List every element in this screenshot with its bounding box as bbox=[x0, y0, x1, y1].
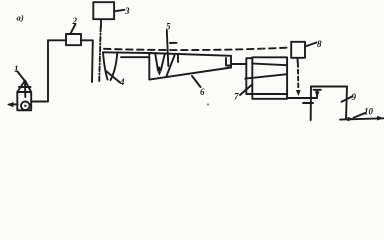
pointer to 3 bbox=[114, 10, 124, 12]
pointer to 4 bbox=[106, 71, 120, 83]
inlet arrow of 5 bbox=[158, 68, 160, 73]
wire rail left of box 2 bbox=[48, 39, 66, 41]
svg-text:10: 10 bbox=[364, 107, 374, 117]
weir at vessel right bbox=[226, 58, 230, 66]
inlet arrow into tank 9 bbox=[314, 89, 321, 91]
svg-text:a): a) bbox=[17, 13, 24, 23]
svg-text:3: 3 bbox=[124, 6, 130, 16]
pump dot bbox=[24, 105, 26, 107]
unit 7 inner diagonal bbox=[245, 74, 287, 78]
inner diagonal of vessel bbox=[167, 56, 175, 77]
paper speck bbox=[261, 47, 263, 49]
tank 9 left wall bbox=[310, 87, 312, 121]
feed arrow into 1 bbox=[9, 103, 18, 105]
tank 9 rim bbox=[311, 86, 347, 88]
pointer to 8 bbox=[305, 43, 317, 47]
wire down to funnel area bbox=[91, 40, 94, 82]
connector vessel to unit 7 bbox=[231, 63, 246, 65]
svg-text:6: 6 bbox=[200, 87, 205, 97]
hopper feeder 1: triangle bbox=[17, 81, 31, 93]
hopper 1 inner bar bbox=[19, 86, 31, 88]
pointer to 6 bbox=[192, 76, 201, 87]
crossing line at tank 9 left bbox=[303, 102, 313, 104]
dashed control line horizontal bbox=[104, 48, 289, 50]
outlet arrowhead mid bbox=[348, 117, 354, 122]
pointer to 2 bbox=[71, 24, 76, 33]
dash-dot control line from 3 bbox=[99, 27, 101, 82]
pointer to 10 bbox=[354, 113, 366, 118]
duct bottom line bbox=[121, 56, 149, 58]
stem below 3 bbox=[100, 19, 102, 27]
hopper 1 body box bbox=[17, 92, 31, 110]
vessel right edge bbox=[230, 56, 232, 68]
wire rail right of box 2 bbox=[81, 39, 93, 41]
svg-text:7: 7 bbox=[234, 92, 239, 102]
inner short vertical bbox=[177, 54, 179, 62]
pump circle of 1 bbox=[21, 102, 30, 111]
paper speck bbox=[207, 103, 209, 105]
unit 7 narrow box bbox=[246, 58, 252, 94]
cyclone funnel 4 left wall bbox=[103, 52, 108, 79]
unit 7 inner bottom line bbox=[246, 93, 287, 95]
wire from 1 to rail bbox=[31, 40, 48, 101]
stray dash near 5 bbox=[170, 42, 177, 44]
svg-text:4: 4 bbox=[119, 77, 125, 87]
vessel left edge bbox=[148, 53, 150, 80]
tank 9 right wall bbox=[346, 87, 347, 120]
inlet funnel 5 left wall bbox=[155, 54, 158, 71]
pointer to 9 bbox=[342, 97, 353, 102]
dashed control drop from 8 bbox=[297, 63, 299, 90]
pointer to 7 bbox=[240, 85, 252, 95]
unit 7 inner line upper bbox=[252, 64, 287, 66]
control unit 8 box bbox=[291, 42, 305, 58]
inlet funnel 5 right wall bbox=[161, 54, 165, 71]
pointer to 1 bbox=[18, 72, 25, 81]
svg-text:8: 8 bbox=[317, 39, 322, 49]
cyclone funnel 4 right wall bbox=[111, 52, 118, 80]
vessel 5/6 top edge bbox=[149, 53, 231, 56]
vessel bottom edge bbox=[149, 68, 231, 80]
control unit 3 box bbox=[93, 2, 114, 19]
outlet line from 9 bbox=[340, 118, 384, 119]
duct top line bbox=[103, 51, 149, 54]
outlet arrowhead end bbox=[377, 116, 384, 121]
arrowhead of control drop bbox=[296, 90, 301, 96]
unit 7 main box bbox=[252, 57, 287, 99]
pointer line from 5 bbox=[167, 31, 169, 67]
svg-text:5: 5 bbox=[166, 22, 171, 32]
connector 7 to tank 9 bbox=[287, 90, 317, 98]
box 2 bbox=[66, 34, 81, 45]
stem below 8 bbox=[297, 58, 299, 63]
hopper 1 stem bbox=[24, 81, 26, 97]
